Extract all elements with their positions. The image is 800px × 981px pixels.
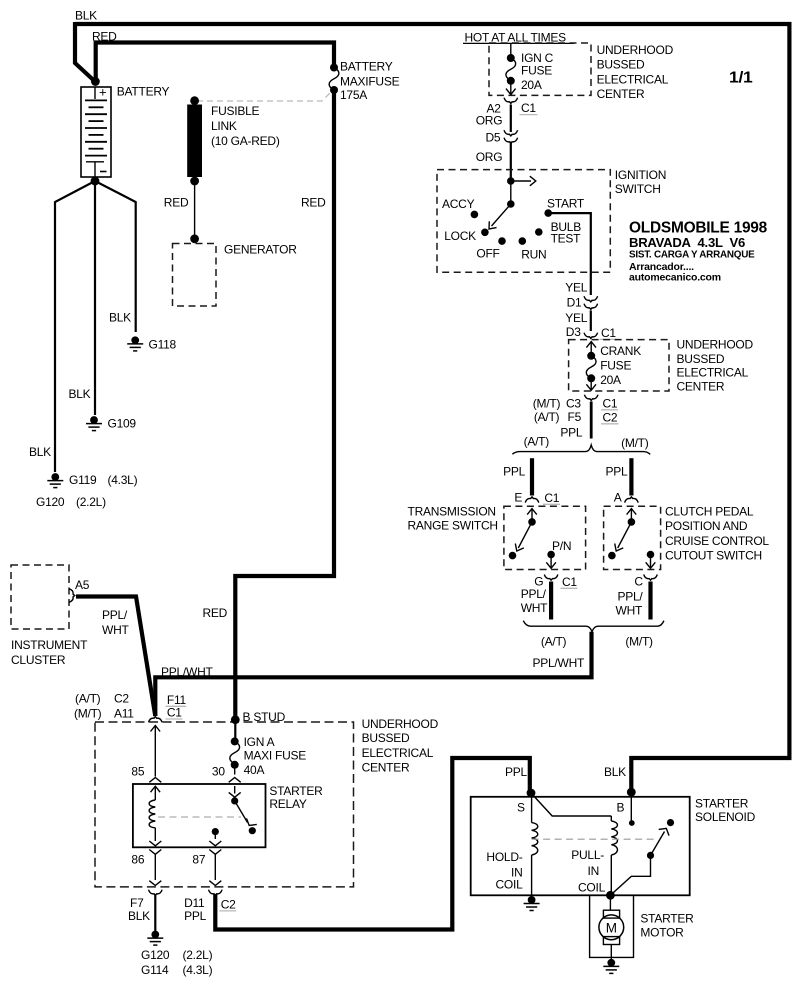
svg-text:C1: C1 [544, 491, 559, 505]
svg-text:COIL: COIL [578, 881, 606, 895]
connector D11/C2 below UBEC [209, 890, 223, 896]
svg-text:GENERATOR: GENERATOR [224, 243, 297, 257]
svg-text:YEL: YEL [565, 281, 588, 295]
svg-text:G114: G114 [141, 963, 169, 977]
svg-text:86: 86 [131, 852, 144, 866]
svg-text:PPL/: PPL/ [102, 608, 128, 622]
pull-in coil [610, 816, 612, 821]
svg-text:BLK: BLK [109, 311, 131, 325]
svg-text:POSITION AND: POSITION AND [665, 519, 748, 533]
svg-text:1/1: 1/1 [729, 70, 753, 87]
svg-text:UNDERHOOD: UNDERHOOD [677, 338, 754, 352]
node trans switch pivot [528, 518, 536, 526]
node B stub end [629, 820, 635, 826]
svg-text:STARTER: STARTER [269, 784, 323, 798]
svg-text:A11: A11 [114, 707, 134, 721]
wire F7 BLK to ground [154, 894, 156, 931]
svg-text:HOLD-: HOLD- [486, 850, 522, 864]
svg-text:BLK: BLK [69, 387, 91, 401]
node solenoid switch upper contact [667, 819, 674, 826]
relay pin 85 entry arrow [151, 786, 161, 792]
svg-text:CENTER: CENTER [597, 87, 645, 101]
svg-text:G119: G119 [69, 473, 97, 487]
svg-text:LINK: LINK [211, 119, 237, 133]
wire BLK battery positive branch [75, 22, 95, 82]
transmission range switch (dashed box) [504, 506, 586, 569]
svg-text:175A: 175A [340, 88, 367, 102]
wire PPL/WHT from G [549, 582, 553, 620]
relay pin 87 exit [209, 850, 221, 855]
svg-text:CENTER: CENTER [677, 380, 725, 394]
svg-text:BLK: BLK [128, 909, 150, 923]
svg-text:S: S [517, 801, 525, 815]
svg-text:CLUTCH PEDAL: CLUTCH PEDAL [665, 505, 754, 519]
connector C1 (A2) [504, 98, 518, 104]
svg-text:SWITCH: SWITCH [615, 182, 661, 196]
svg-text:WHT: WHT [102, 623, 129, 637]
connector C1 (G) [544, 575, 558, 581]
node ACCY [471, 211, 479, 219]
splice D5 [504, 130, 518, 136]
relay pin 86 exit [149, 850, 161, 855]
connector F7 below UBEC [149, 890, 163, 896]
connector F11/C1 [149, 717, 163, 723]
svg-text:P/N: P/N [552, 539, 571, 553]
wire PPL stub to split brace [590, 402, 593, 439]
solenoid internal dashed link [532, 838, 657, 840]
svg-text:(4.3L): (4.3L) [183, 963, 213, 977]
svg-text:PPL: PPL [503, 465, 526, 479]
svg-text:YEL: YEL [565, 311, 588, 325]
relay coil [149, 800, 155, 828]
starter motor enclosure [590, 895, 634, 957]
svg-text:20A: 20A [600, 373, 621, 387]
wire battery negative to G109 [94, 181, 96, 415]
svg-text:CLUSTER: CLUSTER [11, 653, 66, 667]
svg-text:87: 87 [192, 852, 205, 866]
wire RED main: battery to maxifuse drop, jog, drop to B STUD [96, 43, 334, 82]
node BULB TEST [535, 228, 543, 236]
wire BLK main feed: top run and right-side drop to solenoid B [75, 24, 789, 791]
svg-text:(2.2L): (2.2L) [183, 948, 213, 962]
svg-text:CENTER: CENTER [362, 761, 410, 775]
svg-text:(M/T): (M/T) [621, 436, 649, 450]
svg-text:IN: IN [588, 864, 600, 878]
svg-text:SOLENOID: SOLENOID [695, 810, 756, 824]
wire PPL M/T branch [629, 458, 633, 495]
node solenoid switch pivot [647, 852, 654, 859]
underhood bussed electrical center box 2 / crank fuse (dashed) [569, 340, 669, 391]
hold-in coil [531, 793, 533, 823]
svg-text:SIST. CARGA Y ARRANQUE: SIST. CARGA Y ARRANQUE [629, 249, 755, 261]
svg-text:D1: D1 [567, 296, 582, 310]
svg-text:RED: RED [164, 196, 189, 210]
node clutch switch output contact [647, 551, 655, 559]
node ignition rotor pivot [507, 200, 515, 208]
wire PPL/WHT main run to F11 [155, 632, 591, 716]
node generator terminal [190, 234, 199, 243]
svg-text:PPL: PPL [184, 909, 207, 923]
svg-text:(A/T): (A/T) [75, 692, 101, 706]
wire battery negative to G119 [55, 181, 95, 472]
svg-text:G120: G120 [36, 495, 65, 509]
node RUN [519, 237, 527, 245]
svg-text:A5: A5 [75, 578, 90, 592]
svg-text:ACCY: ACCY [442, 197, 475, 211]
connector A (clutch) [625, 497, 639, 503]
ground below hold-in coil [524, 896, 540, 911]
svg-text:40A: 40A [244, 763, 265, 777]
fuse IGN C 20A [510, 43, 512, 57]
svg-text:BUSSED: BUSSED [362, 731, 410, 745]
wire 85 feed inside UBEC [151, 726, 161, 732]
svg-text:MAXI FUSE: MAXI FUSE [244, 749, 307, 763]
starter solenoid box [471, 797, 690, 896]
wire YEL to D3 [590, 311, 592, 332]
svg-text:PPL/: PPL/ [521, 587, 547, 601]
ground G109 [86, 416, 102, 431]
svg-text:PPL/: PPL/ [618, 590, 644, 604]
svg-text:WHT: WHT [616, 604, 643, 618]
svg-text:BATTERY: BATTERY [340, 60, 393, 74]
svg-text:ORG: ORG [476, 150, 503, 164]
svg-text:C3: C3 [566, 397, 581, 411]
ground G120/G114 [147, 931, 163, 946]
svg-text:PPL: PPL [505, 765, 528, 779]
svg-text:A: A [614, 490, 622, 504]
svg-text:UNDERHOOD: UNDERHOOD [597, 43, 674, 57]
node motor junction [606, 891, 615, 900]
connector A5 [69, 589, 75, 603]
clutch pedal switch (dashed box) [604, 506, 661, 569]
svg-text:BLK: BLK [604, 765, 626, 779]
battery maxifuse element [330, 64, 338, 72]
svg-text:C1: C1 [167, 706, 182, 720]
svg-text:(A/T): (A/T) [541, 635, 567, 649]
node OFF [498, 237, 506, 245]
svg-text:B STUD: B STUD [243, 710, 286, 724]
svg-text:RELAY: RELAY [269, 797, 306, 811]
svg-text:TEST: TEST [551, 232, 582, 246]
fusible link gray tie line [197, 92, 332, 102]
node S terminal [527, 789, 536, 798]
svg-text:OFF: OFF [476, 247, 499, 261]
svg-text:BLK: BLK [29, 445, 51, 459]
wire PPL/WHT from C [648, 582, 652, 620]
solenoid switch blade with arrow [651, 832, 665, 856]
svg-text:C1: C1 [521, 101, 536, 115]
svg-text:STARTER: STARTER [695, 797, 749, 811]
wire switch pivot to motor junction [610, 855, 650, 895]
svg-text:(4.3L): (4.3L) [108, 473, 138, 487]
node relay contact 87 [212, 828, 219, 835]
svg-text:BUSSED: BUSSED [597, 58, 645, 72]
wire fusible link to generator [194, 181, 196, 239]
svg-text:(M/T): (M/T) [625, 635, 653, 649]
node battery positive junction [91, 77, 100, 86]
motor M element [609, 895, 611, 910]
svg-text:IGN A: IGN A [244, 735, 275, 749]
svg-text:C1: C1 [601, 326, 616, 340]
svg-text:D5: D5 [486, 131, 501, 145]
svg-text:PPL/WHT: PPL/WHT [161, 665, 214, 679]
generator G1 (dashed box) [173, 244, 217, 307]
svg-text:UNDERHOOD: UNDERHOOD [362, 717, 439, 731]
node trans switch lower contact [509, 552, 517, 560]
svg-text:MOTOR: MOTOR [640, 926, 684, 940]
underhood bussed electrical center box 1 (dashed) [489, 43, 591, 95]
svg-text:(2.2L): (2.2L) [76, 495, 106, 509]
svg-text:INSTRUMENT: INSTRUMENT [11, 638, 88, 652]
svg-text:RANGE SWITCH: RANGE SWITCH [408, 519, 498, 533]
brace split A/T - M/T (upper) [512, 445, 650, 454]
svg-text:BUSSED: BUSSED [677, 352, 725, 366]
wire B stub [630, 792, 632, 822]
svg-text:F5: F5 [568, 410, 582, 424]
svg-text:FUSIBLE: FUSIBLE [211, 104, 260, 118]
svg-text:85: 85 [131, 765, 144, 779]
starter relay box [133, 784, 266, 847]
svg-text:(M/T): (M/T) [74, 707, 102, 721]
svg-text:CUTOUT SWITCH: CUTOUT SWITCH [665, 549, 762, 563]
svg-text:PULL-: PULL- [571, 848, 604, 862]
svg-text:CRANK: CRANK [600, 344, 641, 358]
svg-text:COIL: COIL [495, 878, 523, 892]
svg-text:RED: RED [92, 30, 117, 44]
svg-text:ORG: ORG [476, 114, 503, 128]
svg-text:START: START [547, 196, 585, 210]
svg-text:WHT: WHT [521, 601, 548, 615]
node clutch switch lower contact [608, 552, 616, 560]
svg-text:(10 GA-RED): (10 GA-RED) [211, 134, 280, 148]
ground below starter motor [610, 957, 612, 961]
svg-text:ELECTRICAL: ELECTRICAL [362, 746, 434, 760]
wire D11 PPL to solenoid S [215, 758, 530, 930]
node relay contact 87a (unused) [249, 827, 256, 834]
instrument cluster (dashed box) [11, 565, 69, 629]
node relay common 30 [231, 797, 238, 804]
relay switch blade [235, 801, 248, 823]
svg-text:G109: G109 [108, 417, 137, 431]
svg-text:+: + [99, 85, 106, 100]
node clutch switch pivot [628, 518, 636, 526]
brace merge A/T - M/T (lower) [523, 621, 664, 632]
svg-text:B: B [617, 801, 625, 815]
ignition rotor blade toward LOCK [492, 204, 511, 226]
battery B1 [81, 85, 111, 178]
node ignition feed junction [507, 177, 515, 185]
wire S to pull-in coil [531, 793, 611, 816]
node B STUD [231, 715, 240, 724]
wire PPL A/T branch [530, 458, 534, 495]
svg-text:FUSE: FUSE [600, 359, 631, 373]
svg-text:RED: RED [203, 606, 228, 620]
svg-text:G120: G120 [141, 948, 170, 962]
svg-text:C1: C1 [562, 575, 577, 589]
node battery negative junction [91, 177, 100, 186]
ground G119 [47, 473, 63, 488]
svg-text:TRANSMISSION: TRANSMISSION [408, 505, 496, 519]
svg-text:20A: 20A [521, 78, 542, 92]
svg-text:C2: C2 [603, 411, 618, 425]
svg-text:ELECTRICAL: ELECTRICAL [677, 366, 749, 380]
svg-text:M: M [606, 920, 617, 935]
svg-text:ELECTRICAL: ELECTRICAL [597, 72, 669, 86]
svg-text:C1: C1 [603, 397, 618, 411]
node B terminal [627, 788, 636, 797]
svg-text:PPL: PPL [606, 465, 629, 479]
node START [544, 209, 552, 217]
wire START output YEL [548, 213, 591, 295]
svg-text:RUN: RUN [521, 247, 546, 261]
svg-text:E: E [514, 491, 522, 505]
fuse IGN A MAXI FUSE 40A [234, 720, 236, 740]
svg-text:D3: D3 [566, 325, 581, 339]
connector C (clutch output) [644, 575, 658, 581]
svg-text:FUSE: FUSE [521, 64, 552, 78]
wire battery negative to G118 [95, 181, 136, 332]
fusible link F1 [190, 96, 199, 105]
svg-text:RED: RED [301, 196, 326, 210]
wire ORG to ignition switch [510, 142, 512, 182]
connector C1 (D3) [584, 333, 598, 339]
svg-text:(A/T): (A/T) [524, 435, 550, 449]
svg-text:STARTER: STARTER [640, 912, 694, 926]
wire ORG [510, 105, 512, 133]
ground G118 [127, 336, 143, 351]
svg-text:CRUISE CONTROL: CRUISE CONTROL [665, 534, 769, 548]
svg-text:(A/T): (A/T) [534, 410, 560, 424]
svg-text:IGNITION: IGNITION [615, 168, 666, 182]
fuse CRANK 20A [586, 342, 596, 348]
svg-text:BLK: BLK [75, 9, 97, 23]
node LOCK [481, 229, 489, 237]
relay internal dashed link [158, 816, 241, 818]
svg-text:PPL/WHT: PPL/WHT [533, 656, 586, 670]
svg-text:(M/T): (M/T) [533, 397, 561, 411]
svg-text:BATTERY: BATTERY [117, 85, 170, 99]
svg-text:30: 30 [212, 765, 225, 779]
connector C1/C2 below crank fuse [584, 395, 598, 401]
svg-text:C2: C2 [221, 898, 236, 912]
svg-text:C2: C2 [114, 692, 129, 706]
svg-text:automecanico.com: automecanico.com [629, 272, 721, 284]
relay pin 30 entry arrow [234, 786, 236, 794]
svg-text:MAXIFUSE: MAXIFUSE [340, 75, 400, 89]
connector C1 (E) [525, 497, 539, 503]
svg-text:PPL: PPL [560, 426, 583, 440]
wire PPL/WHT from instrument cluster [76, 597, 155, 717]
ignition switch (dashed box) [437, 170, 610, 273]
splice D1 [584, 296, 598, 302]
svg-text:LOCK: LOCK [444, 229, 476, 243]
svg-text:C: C [634, 575, 643, 589]
svg-text:G118: G118 [149, 338, 177, 352]
underhood bussed electrical center box 3 / starter relay (dashed) [95, 722, 354, 887]
